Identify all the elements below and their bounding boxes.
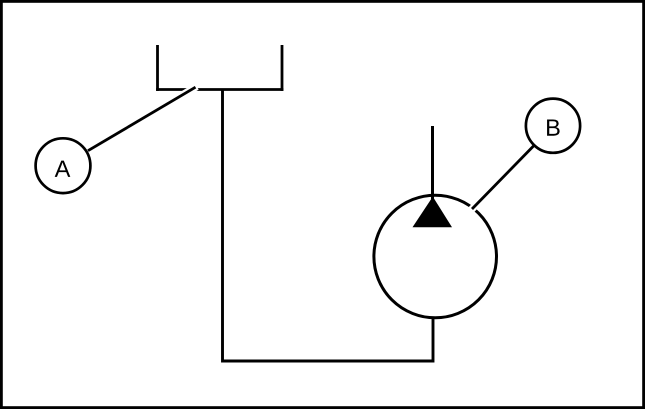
wire at pump outlet (top)	[431, 126, 434, 199]
leader wire to balloon A (with white casing halo)	[88, 86, 197, 150]
node B (balloon)	[526, 99, 580, 153]
pump P (circle with flow triangle)	[374, 195, 497, 318]
wire from tank to pump (suction line)	[223, 90, 434, 362]
leader wire to balloon B (with white casing halo)	[469, 146, 533, 212]
tank (reservoir)	[156, 45, 283, 91]
node A (balloon)	[36, 138, 91, 193]
